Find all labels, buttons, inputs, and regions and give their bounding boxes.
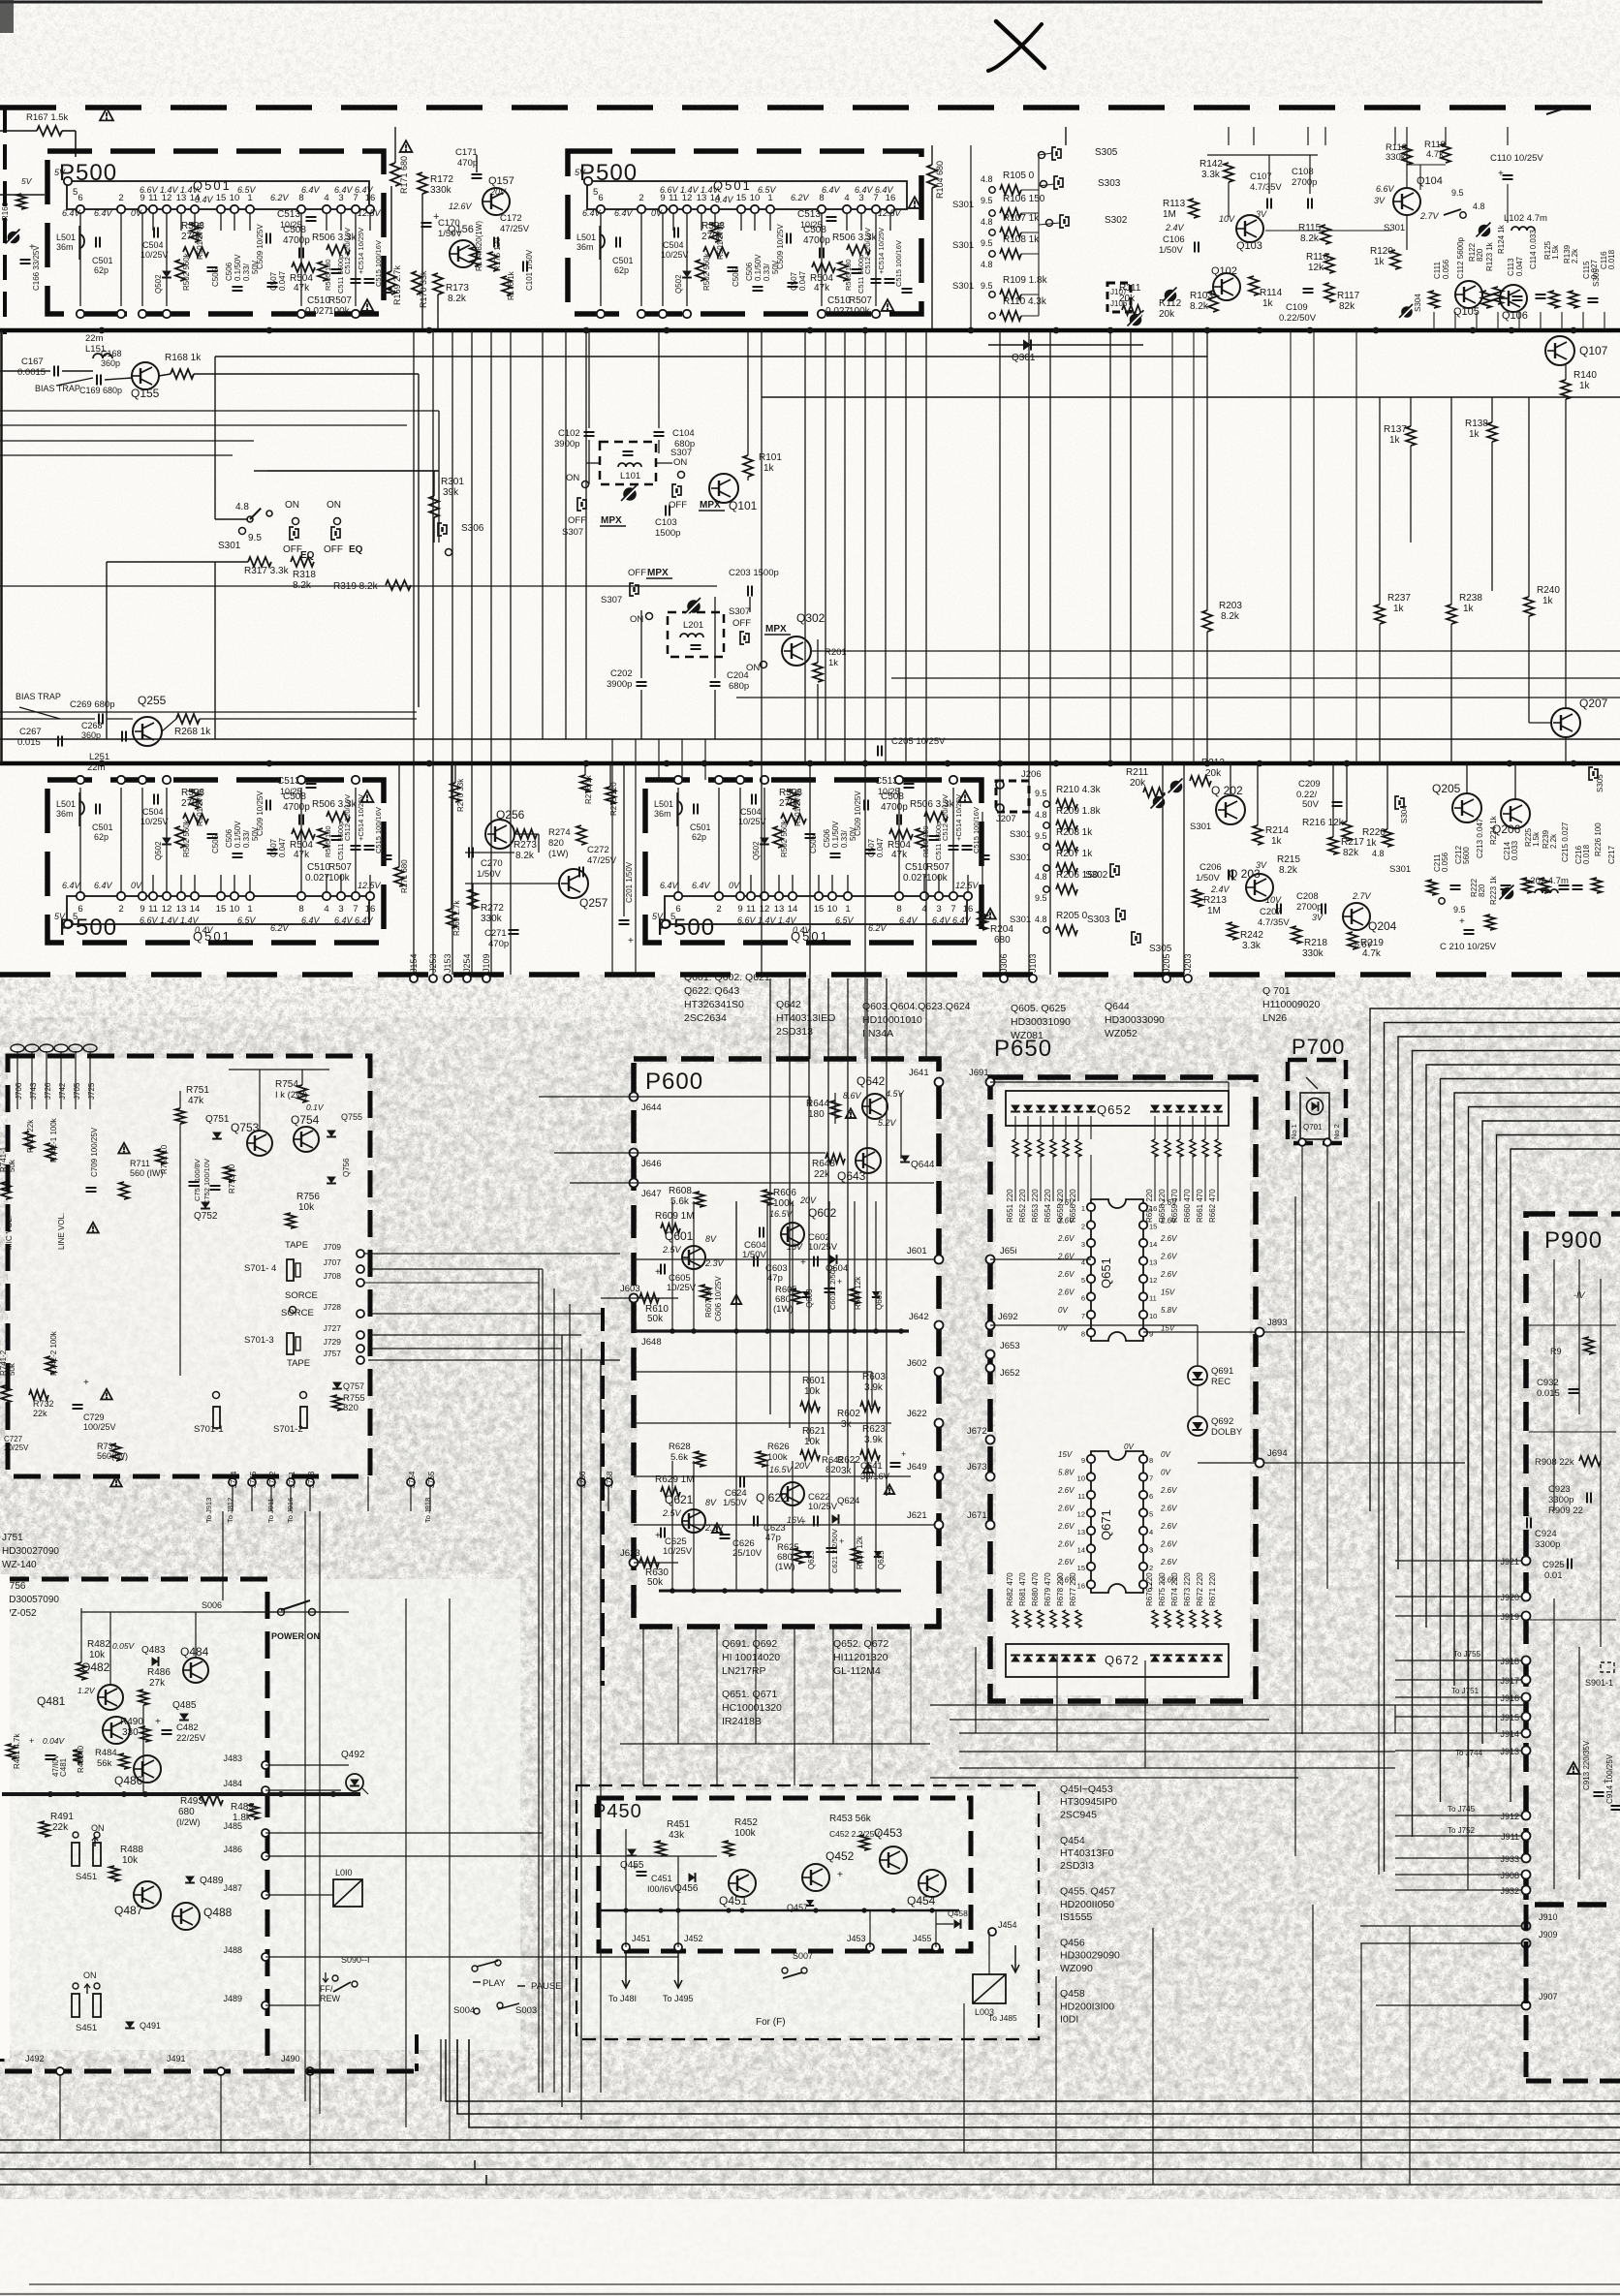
pin 11 of Q651 — [1139, 1292, 1147, 1300]
wires Q255 — [0, 718, 95, 720]
svg-text:S303: S303 — [1087, 915, 1110, 925]
switch S307 OFF upper — [577, 498, 581, 511]
pin 14 of Q651 — [1139, 1239, 1147, 1247]
svg-text:L102 4.7m: L102 4.7m — [1504, 213, 1547, 224]
transistor Q484 — [183, 1658, 208, 1683]
svg-text:4.7/35V: 4.7/35V — [1250, 182, 1282, 193]
svg-text:330: 330 — [122, 1727, 139, 1738]
diode Q502 — [682, 271, 692, 278]
svg-text:1k: 1k — [828, 658, 838, 668]
svg-text:R208 1k: R208 1k — [1056, 827, 1093, 838]
svg-text:6.2V: 6.2V — [270, 193, 290, 202]
svg-text:R654 220: R654 220 — [1044, 1189, 1052, 1223]
transistor Q105 — [1455, 281, 1482, 308]
feedthrough node on box edge — [597, 310, 605, 318]
svg-text:1k: 1k — [1389, 435, 1401, 446]
svg-text:R218: R218 — [1304, 938, 1327, 948]
svg-text:10k: 10k — [804, 1386, 821, 1397]
svg-text:R622: R622 — [837, 1455, 860, 1466]
pin 14 of Q501 — [191, 892, 199, 900]
bus line 4 — [0, 2139, 1620, 2141]
svg-text:6: 6 — [78, 193, 82, 203]
svg-text:R490: R490 — [120, 1717, 143, 1727]
svg-text:2700p: 2700p — [1296, 902, 1322, 913]
connector J752 — [267, 1478, 275, 1486]
pin 1 of Q501 — [246, 205, 254, 213]
photo sensor Q701 — [1300, 1093, 1329, 1139]
svg-text:0V: 0V — [1161, 1450, 1170, 1459]
pin 4 of Q671 — [1139, 1527, 1147, 1535]
svg-text:+: + — [655, 1531, 661, 1541]
svg-text:36m: 36m — [56, 242, 74, 252]
svg-text:H110009020: H110009020 — [1262, 999, 1321, 1010]
svg-text:4: 4 — [324, 904, 328, 915]
transistor Q255 — [133, 717, 162, 746]
svg-text:Q701: Q701 — [1303, 1123, 1323, 1132]
pin 4 of Q651 — [1087, 1257, 1095, 1264]
connector J933 — [1522, 1854, 1531, 1863]
svg-text:J694: J694 — [1267, 1448, 1288, 1459]
svg-text:J647: J647 — [641, 1189, 662, 1199]
svg-text:4.8: 4.8 — [235, 502, 249, 512]
inductor L003 — [973, 1974, 1006, 2003]
svg-text:0.4V: 0.4V — [195, 925, 214, 935]
pin 11 of Q501 — [149, 892, 157, 900]
svg-text:OFF: OFF — [568, 515, 586, 526]
svg-text:C515 100/16V: C515 100/16V — [894, 240, 903, 287]
feedthrough node on box edge — [139, 310, 146, 318]
svg-text:R171 680: R171 680 — [399, 156, 409, 194]
pin 15 of Q501 — [217, 892, 225, 900]
svg-text:+: + — [837, 1277, 842, 1287]
svg-text:3V: 3V — [1256, 209, 1267, 219]
wires below C110 — [1507, 184, 1509, 223]
svg-text:R677 220: R677 220 — [1069, 1572, 1077, 1606]
svg-text:9.5: 9.5 — [981, 281, 993, 291]
svg-text:C504: C504 — [740, 807, 762, 817]
svg-text:0.1V: 0.1V — [306, 1102, 325, 1112]
svg-text:Q755: Q755 — [341, 1112, 362, 1122]
feedthrough node on box edge — [352, 310, 359, 318]
svg-text:Q671: Q671 — [1099, 1509, 1113, 1540]
svg-text:20k: 20k — [1205, 768, 1222, 779]
svg-text:9.5: 9.5 — [1035, 831, 1047, 841]
svg-text:J754: J754 — [408, 1471, 417, 1488]
svg-text:J916: J916 — [1500, 1693, 1519, 1703]
svg-text:8.2k: 8.2k — [1300, 233, 1320, 244]
feedthrough node on box edge — [117, 310, 125, 318]
svg-text:3: 3 — [1149, 1546, 1153, 1555]
connector J745 — [248, 1478, 256, 1486]
svg-text:C106: C106 — [1163, 234, 1185, 245]
svg-text:2.5V: 2.5V — [662, 1245, 682, 1255]
bottom faint edge line — [29, 2283, 1620, 2285]
svg-text:J915: J915 — [1500, 1713, 1519, 1722]
svg-text:OFF: OFF — [669, 500, 687, 511]
svg-text:2.6V: 2.6V — [1057, 1522, 1075, 1531]
svg-text:9.5: 9.5 — [1453, 905, 1466, 915]
svg-text:J253: J253 — [428, 953, 438, 973]
capacitor C507 0.047 — [267, 849, 278, 851]
pin 10 of Q671 — [1087, 1473, 1095, 1480]
svg-text:360p: 360p — [101, 358, 120, 368]
ladder interconnect wires upper right — [970, 145, 972, 330]
svg-text:15V: 15V — [1161, 1288, 1175, 1297]
connector J487 — [262, 1891, 269, 1899]
svg-text:R215: R215 — [1277, 854, 1300, 865]
diode Q502 — [760, 838, 769, 845]
svg-text:C509 10/25V: C509 10/25V — [256, 791, 265, 836]
svg-text:To J495: To J495 — [663, 1994, 694, 2003]
svg-text:TAPE: TAPE — [285, 1240, 308, 1251]
svg-text:2.6V: 2.6V — [1057, 1217, 1075, 1226]
svg-text:2.6V: 2.6V — [1160, 1522, 1177, 1531]
svg-text:Q302: Q302 — [796, 611, 826, 625]
svg-text:C752 100/10V: C752 100/10V — [202, 1159, 211, 1205]
connector J601 — [935, 1256, 944, 1264]
svg-text:7: 7 — [950, 904, 955, 915]
svg-text:J672: J672 — [967, 1426, 987, 1437]
pin 1 of Q501 — [246, 892, 254, 900]
svg-text:J673: J673 — [967, 1462, 987, 1473]
svg-text:Q502: Q502 — [154, 274, 163, 294]
warning P900 — [1568, 1762, 1580, 1774]
main bus line lower — [0, 761, 1620, 766]
svg-text:0V: 0V — [1124, 1443, 1134, 1451]
svg-text:6.4V 6.4V: 6.4V 6.4V — [932, 915, 972, 925]
svg-text:4.8: 4.8 — [981, 217, 993, 227]
pin 8 of Q501 — [297, 205, 305, 213]
feedthrough node on box edge — [674, 776, 682, 784]
svg-text:4.8: 4.8 — [1035, 915, 1047, 924]
svg-text:0.018: 0.018 — [1582, 844, 1591, 864]
svg-text:C114 0.033: C114 0.033 — [1529, 230, 1538, 269]
pin 13 of Q501 — [698, 205, 705, 213]
svg-text:C217: C217 — [1607, 845, 1616, 864]
svg-text:R451: R451 — [667, 1819, 690, 1830]
pin 16 of Q651 — [1139, 1203, 1147, 1211]
Q480 box bottom edge extension — [267, 2069, 417, 2074]
svg-text:L201: L201 — [683, 620, 703, 631]
svg-text:R742-1 100k: R742-1 100k — [49, 1117, 58, 1163]
svg-text:10/25V: 10/25V — [808, 1502, 838, 1512]
svg-text:R486: R486 — [147, 1667, 171, 1678]
svg-text:HT40313F0: HT40313F0 — [1060, 1847, 1114, 1859]
pin 2 of Q501 — [117, 892, 125, 900]
svg-text:1/50V: 1/50V — [477, 869, 501, 880]
connector J756 — [577, 1478, 585, 1486]
svg-text:4.7/35V: 4.7/35V — [1258, 917, 1290, 928]
svg-text:J726: J726 — [44, 1082, 52, 1100]
svg-text:C203 1500p: C203 1500p — [729, 568, 779, 578]
feedthrough node on box edge — [715, 776, 723, 784]
svg-text:C515 100/16V: C515 100/16V — [972, 807, 981, 853]
svg-text:R201: R201 — [825, 647, 847, 658]
svg-text:S307: S307 — [562, 527, 583, 538]
svg-text:J745: J745 — [249, 1471, 258, 1488]
svg-text:J646: J646 — [641, 1159, 662, 1169]
svg-text:560 (IW): 560 (IW) — [130, 1168, 164, 1178]
pin 12 of Q501 — [683, 205, 691, 213]
svg-text:5600: 5600 — [1462, 847, 1471, 864]
connector J489 — [262, 2001, 269, 2009]
svg-text:Q103: Q103 — [1236, 240, 1262, 252]
svg-text:0.4V: 0.4V — [793, 925, 812, 935]
svg-text:Q652. Q672: Q652. Q672 — [833, 1638, 888, 1650]
connector J916 — [1522, 1693, 1531, 1702]
svg-text:2: 2 — [118, 904, 123, 915]
svg-text:820: 820 — [826, 1465, 841, 1475]
svg-text:0.33/: 0.33/ — [242, 829, 251, 848]
scan edge line top — [0, 1, 1542, 4]
svg-text:Q454: Q454 — [1060, 1835, 1085, 1846]
svg-text:J488: J488 — [223, 1945, 242, 1955]
transistor Q753 — [247, 1131, 272, 1156]
svg-text:HT30945IP0: HT30945IP0 — [1060, 1796, 1117, 1808]
diode Q489 — [185, 1877, 195, 1883]
filter L101 dashed box — [600, 442, 656, 484]
svg-text:Q501: Q501 — [193, 178, 232, 193]
svg-text:C501: C501 — [612, 256, 634, 265]
svg-text:Q454: Q454 — [907, 1894, 936, 1908]
transistor Q754 — [294, 1127, 319, 1152]
svg-text:27k: 27k — [149, 1678, 166, 1689]
svg-text:R123 1k: R123 1k — [1485, 241, 1494, 271]
svg-text:J909: J909 — [1539, 1930, 1558, 1939]
pin 2 of Q501 — [638, 205, 645, 213]
svg-text:0.04V: 0.04V — [43, 1736, 66, 1746]
svg-text:2: 2 — [1081, 1223, 1085, 1231]
svg-text:S301: S301 — [218, 541, 241, 551]
connector J921 — [1522, 1557, 1531, 1566]
svg-text:C923: C923 — [1548, 1484, 1571, 1495]
connector J673 — [986, 1473, 995, 1481]
resistor R501 270k — [788, 790, 797, 809]
svg-text:10/25: 10/25 — [800, 220, 823, 230]
svg-text:WZ-140: WZ-140 — [2, 1560, 37, 1570]
svg-text:82k: 82k — [1339, 301, 1355, 312]
svg-text:J912: J912 — [1500, 1812, 1519, 1821]
svg-text:J752: J752 — [268, 1471, 277, 1488]
svg-text:P900: P900 — [1544, 1227, 1603, 1254]
svg-text:LN217RP: LN217RP — [722, 1665, 766, 1677]
svg-text:S301: S301 — [1384, 223, 1405, 233]
svg-text:C201 1/50V: C201 1/50V — [625, 861, 634, 903]
svg-text:S303: S303 — [1098, 178, 1121, 189]
svg-text:C510: C510 — [827, 295, 851, 306]
svg-text:36m: 36m — [576, 242, 594, 252]
box tape monitor switches — [8, 1056, 370, 1476]
svg-text:HD30027090: HD30027090 — [2, 1546, 59, 1557]
svg-text:L251: L251 — [89, 752, 109, 762]
transistor Q452 — [802, 1864, 829, 1891]
svg-text:6.4V: 6.4V — [301, 915, 321, 925]
capacitor C501 62p — [95, 237, 97, 248]
svg-text:LINE VOL.: LINE VOL. — [57, 1213, 66, 1250]
pin 7 of Q651 — [1087, 1311, 1095, 1319]
svg-text:C709 100/25V: C709 100/25V — [90, 1127, 99, 1177]
connector J451 — [622, 1943, 630, 1951]
svg-text:0.027: 0.027 — [826, 306, 850, 317]
svg-text:R274: R274 — [548, 827, 571, 838]
feedthrough node on box edge — [638, 310, 645, 318]
risers bottom right — [1312, 1905, 1314, 2153]
svg-text:R601: R601 — [802, 1376, 826, 1386]
svg-text:1k: 1k — [1469, 429, 1480, 440]
transistor Q205 — [1452, 793, 1481, 822]
svg-text:Q255: Q255 — [138, 694, 167, 707]
switch S305 lower — [1132, 932, 1136, 945]
svg-text:+: + — [1498, 169, 1504, 179]
svg-text:2.4V: 2.4V — [1210, 884, 1231, 894]
svg-text:1M: 1M — [1207, 906, 1221, 916]
pin 11 of Q501 — [747, 892, 755, 900]
LED Q492 — [346, 1774, 363, 1791]
svg-text:9.5: 9.5 — [1451, 188, 1464, 198]
svg-text:4700p: 4700p — [283, 802, 310, 813]
svg-text:+: + — [632, 1862, 638, 1873]
horizontal rails upper left — [0, 440, 254, 442]
pin 13 of Q501 — [775, 892, 783, 900]
pin 5 of Q501 — [64, 177, 72, 185]
nested wire fan top right — [1370, 1008, 1620, 1511]
svg-text:2.2k: 2.2k — [1571, 248, 1579, 264]
svg-text:PLAY: PLAY — [483, 1978, 506, 1989]
svg-text:15: 15 — [216, 904, 227, 915]
svg-text:J919: J919 — [1500, 1612, 1519, 1622]
svg-text:C506: C506 — [745, 262, 754, 281]
svg-text:C215 0.027: C215 0.027 — [1561, 822, 1570, 862]
svg-text:13: 13 — [1077, 1528, 1085, 1536]
IC Q501 hybrid amp — [67, 181, 369, 209]
svg-text:R317 3.3k: R317 3.3k — [244, 566, 290, 576]
svg-text:C513: C513 — [277, 209, 300, 220]
bus line 6 — [0, 2160, 475, 2169]
pin 15 of Q671 — [1087, 1563, 1095, 1570]
transistor Q202 — [1216, 795, 1245, 824]
svg-text:R101: R101 — [759, 452, 782, 463]
svg-text:L501: L501 — [654, 799, 673, 809]
left riser wires to bus — [59, 2075, 61, 2140]
svg-text:C205 10/25V: C205 10/25V — [891, 736, 946, 747]
svg-text:Q643: Q643 — [837, 1169, 866, 1183]
svg-text:0.0015: 0.0015 — [17, 367, 46, 378]
svg-text:R660 470: R660 470 — [1183, 1189, 1192, 1223]
svg-text:820: 820 — [343, 1403, 358, 1413]
resistor R505 180 — [318, 828, 327, 848]
svg-text:Q452: Q452 — [826, 1849, 855, 1863]
pin 7 of Q501 — [950, 892, 957, 900]
svg-text:9.5: 9.5 — [248, 533, 262, 543]
svg-text:R318: R318 — [293, 570, 316, 580]
svg-text:100k: 100k — [328, 873, 351, 884]
pin 9 of Q501 — [139, 892, 146, 900]
connector J452 — [674, 1943, 682, 1951]
resistor R505 180 — [916, 828, 925, 848]
svg-text:22m: 22m — [87, 762, 106, 773]
transistor Q203 — [1246, 874, 1273, 901]
LED array Q652 box — [1006, 1091, 1229, 1126]
svg-text:P600: P600 — [645, 1069, 703, 1095]
pin 13 of Q671 — [1087, 1527, 1095, 1535]
wires near Q155 — [0, 370, 50, 372]
svg-text:J756: J756 — [578, 1471, 587, 1488]
svg-text:9.5: 9.5 — [1035, 893, 1047, 903]
svg-text:15: 15 — [1077, 1564, 1085, 1572]
module box P450 inner heavy — [599, 1798, 971, 1951]
svg-text:R503: R503 — [181, 221, 204, 232]
svg-text:5: 5 — [593, 187, 598, 198]
horizontal connects lower left — [222, 1511, 224, 1600]
svg-text:J729: J729 — [324, 1337, 342, 1347]
svg-text:8.2k: 8.2k — [1279, 865, 1298, 876]
svg-text:R628: R628 — [669, 1442, 691, 1452]
svg-text:C505: C505 — [211, 834, 220, 853]
transistor Q454 — [919, 1870, 946, 1897]
svg-text:Q488: Q488 — [203, 1906, 233, 1919]
svg-text:J933: J933 — [1500, 1854, 1519, 1864]
svg-text:Q692: Q692 — [1211, 1416, 1233, 1427]
svg-text:10/25V: 10/25V — [808, 1242, 838, 1253]
svg-text:13: 13 — [774, 904, 785, 915]
capacitor C501 62p — [693, 804, 695, 815]
svg-text:C113: C113 — [1507, 258, 1515, 276]
connector J694 — [1256, 1459, 1264, 1468]
svg-text:P500: P500 — [59, 160, 117, 186]
svg-text:C110 10/25V: C110 10/25V — [1490, 153, 1543, 164]
connector J707 — [357, 1265, 364, 1273]
pin 11 of Q671 — [1087, 1491, 1095, 1499]
svg-text:11: 11 — [746, 904, 756, 915]
P900 internal horizontals — [1529, 1324, 1616, 1326]
vertical wires center — [542, 330, 544, 739]
svg-text:R173: R173 — [446, 283, 469, 294]
svg-text:C515 100/16V: C515 100/16V — [374, 240, 383, 287]
svg-text:C169 680p: C169 680p — [79, 386, 122, 395]
svg-text:REC: REC — [1211, 1377, 1231, 1387]
svg-text:0.01: 0.01 — [1544, 1570, 1563, 1581]
svg-text:0.047: 0.047 — [1515, 256, 1524, 276]
svg-text:WZ090: WZ090 — [1060, 1963, 1093, 1974]
svg-text:R205 0: R205 0 — [1056, 911, 1088, 921]
svg-text:J455: J455 — [913, 1934, 932, 1943]
svg-text:14: 14 — [788, 904, 798, 915]
arrow To J495 — [674, 1953, 682, 1988]
svg-text:S701- 4: S701- 4 — [244, 1263, 276, 1274]
svg-text:C914 100/25V: C914 100/25V — [1605, 1753, 1614, 1804]
svg-text:C104: C104 — [672, 428, 695, 439]
svg-text:3.3k: 3.3k — [1242, 941, 1262, 951]
svg-text:R626: R626 — [767, 1442, 790, 1452]
feedthrough node on box edge — [659, 310, 667, 318]
svg-text:+: + — [155, 1717, 161, 1727]
svg-text:C606 10/25V: C606 10/25V — [714, 1276, 723, 1321]
svg-text:+: + — [839, 1536, 844, 1546]
svg-text:C507: C507 — [790, 271, 798, 291]
svg-text:R623: R623 — [862, 1424, 886, 1435]
svg-text:62p: 62p — [94, 832, 109, 842]
svg-text:R503: R503 — [701, 221, 725, 232]
svg-text:1: 1 — [247, 904, 252, 915]
svg-text:C505: C505 — [732, 267, 740, 287]
svg-text:S301: S301 — [1010, 829, 1031, 840]
svg-text:R603: R603 — [862, 1372, 886, 1382]
connector J651 — [986, 1256, 995, 1264]
svg-text:C512 220/10V: C512 220/10V — [941, 794, 950, 841]
svg-text:L101: L101 — [620, 471, 640, 481]
pin 4 of Q501 — [843, 205, 851, 213]
svg-text:10/25V: 10/25V — [667, 1283, 697, 1293]
